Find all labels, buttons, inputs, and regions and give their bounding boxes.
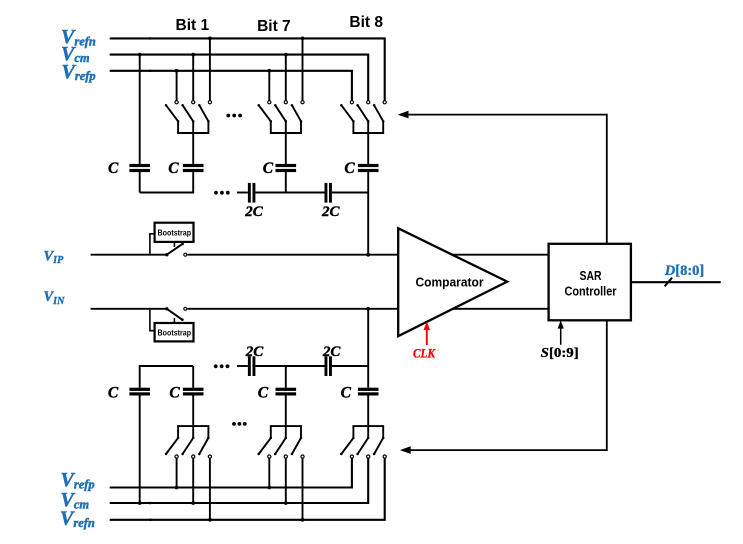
- junction bit7 Vrefp: [267, 69, 271, 73]
- wire bus Vrefn top: [110, 38, 385, 100]
- switch S8b (top): [367, 101, 370, 104]
- svg-text:C: C: [258, 385, 269, 402]
- switch S8c (top): [383, 101, 386, 104]
- junction bit1 Vrefp: [175, 69, 179, 73]
- ellipsis dots between bit1/bit7 switches bottom: [232, 422, 236, 426]
- junction nub on Vcm bottom bus: [149, 502, 152, 505]
- wire bootstrap U3 control stub: [173, 318, 175, 323]
- junction bit1 Vrefp bottom: [175, 486, 179, 490]
- svg-text:C: C: [344, 160, 355, 177]
- capacitor C bit7 bottom: [285, 366, 287, 388]
- junction nub on Vrefn top bus: [149, 37, 152, 40]
- junction nub on Vrefp top bus: [149, 70, 152, 73]
- wire switch-bracket bit7 top: [271, 121, 301, 133]
- node VIN switch pivot: [165, 307, 168, 310]
- svg-text:Comparator: Comparator: [416, 274, 484, 289]
- ellipsis dots top rail: [214, 191, 218, 195]
- svg-text:Bootstrap: Bootstrap: [158, 228, 192, 238]
- switch S8bc (bottom): [383, 455, 386, 458]
- capacitor C bit8 top: [367, 121, 369, 164]
- switch bootstrap-VIN blade: [167, 309, 183, 320]
- wire bootstrap U2 left lead: [150, 234, 155, 254]
- wire VIP line left: [91, 254, 167, 256]
- svg-text:CLK: CLK: [413, 345, 436, 360]
- switch S7a (top): [268, 101, 271, 104]
- bootstrap block U3 (bottom): [155, 323, 194, 341]
- wire feed bit1 bottom to Vrefp: [176, 458, 178, 487]
- wire bootstrap U3 left lead: [150, 310, 155, 331]
- wire VIP line right (to comparator/SAR, passes under comparator): [188, 254, 549, 256]
- wire feed bit1 bottom to Vrefn: [209, 458, 211, 520]
- junction bit7 Vcm bottom: [284, 501, 288, 505]
- switch S1c (top): [208, 101, 211, 104]
- wire S[0:9] arrow: [560, 325, 562, 345]
- junction dummy cap to Vcm bottom: [138, 501, 142, 505]
- wire feed bit1 bottom to Vcm: [192, 458, 194, 503]
- wire feed Vrefn to bit7 switch: [302, 38, 304, 100]
- svg-text:Bootstrap: Bootstrap: [158, 327, 192, 337]
- wire switch-bracket bit8b bottom: [353, 426, 383, 438]
- node VIP switch open terminal: [184, 253, 187, 256]
- wire SAR feedback to bottom switches: [409, 320, 607, 450]
- switch S1bc (bottom): [208, 455, 211, 458]
- capacitor C bit8 bottom: [358, 388, 379, 391]
- svg-text:C: C: [108, 160, 119, 177]
- svg-text:C: C: [263, 160, 274, 177]
- junction bit1 Vrefn bottom: [208, 518, 212, 522]
- junction bit7 Vcm: [284, 53, 288, 57]
- ellipsis dots bottom rail: [214, 364, 218, 368]
- node VIN switch open terminal: [184, 307, 187, 310]
- switch S1a (top): [175, 101, 178, 104]
- wire bottom rail to 2C: [237, 365, 248, 367]
- switch S8a (top): [350, 101, 353, 104]
- capacitor 2C right bottom: [325, 356, 328, 376]
- wire bootstrap U2 control stub: [173, 242, 175, 247]
- wire bottom rail cap1-cap2: [140, 366, 194, 388]
- svg-text:C: C: [169, 385, 180, 402]
- switch S1b (top): [192, 101, 195, 104]
- svg-text:SAR: SAR: [580, 268, 602, 283]
- junction bit7 Vrefn: [301, 37, 305, 41]
- wire bus Vrefp top: [110, 71, 352, 101]
- svg-text:2C: 2C: [244, 204, 264, 220]
- svg-text:2C: 2C: [321, 204, 341, 220]
- switch bootstrap-VIP blade: [167, 244, 183, 255]
- capacitor 2C left top: [248, 183, 251, 203]
- junction bit1 Vrefn: [208, 37, 212, 41]
- svg-text:Bit 1: Bit 1: [176, 17, 210, 34]
- wire bus Vrefn bottom: [110, 458, 385, 520]
- wire VIN line right (to comparator/SAR, passes under comparator): [188, 308, 549, 310]
- svg-text:2C: 2C: [322, 344, 342, 360]
- wire top rail to 2C: [237, 192, 248, 194]
- capacitor C bit1 top: [192, 121, 194, 164]
- svg-text:S[0:9]: S[0:9]: [541, 345, 579, 360]
- wire feed bit7 bottom to Vrefp: [268, 458, 270, 487]
- wire switch-bracket bit1b bottom: [178, 426, 208, 438]
- bus slash mark: [665, 278, 673, 287]
- wire bottom rail mid: [255, 365, 324, 367]
- wire CLK arrow (red): [426, 326, 428, 345]
- wire bit8 cap to VIP node: [367, 172, 369, 255]
- junction bit1 Vcm: [191, 53, 195, 57]
- junction bit8 to VIN: [366, 307, 370, 311]
- junction dummy cap to Vcm top: [138, 53, 142, 57]
- capacitor 2C left bottom: [248, 356, 251, 376]
- wire top rail right: [332, 192, 368, 194]
- wire bottom rail right: [332, 365, 368, 367]
- wire feed Vrefp to bit7 switch: [268, 71, 270, 101]
- ellipsis dots between bit1/bit7 switches top: [226, 114, 230, 118]
- wire feed Vrefn to bit1 switch: [209, 38, 211, 100]
- junction bit7 Vrefp bottom: [267, 486, 271, 490]
- svg-text:C: C: [168, 160, 179, 177]
- svg-text:C: C: [341, 385, 352, 402]
- svg-text:2C: 2C: [245, 344, 265, 360]
- capacitor 2C right top: [325, 183, 328, 203]
- capacitor C (dummy, bottom-left): [129, 388, 150, 391]
- switch S7bc (bottom): [301, 455, 304, 458]
- wire feed Vrefp to bit1 switch: [176, 71, 178, 101]
- switch S7c (top): [301, 101, 304, 104]
- svg-text:Bit 7: Bit 7: [257, 18, 291, 35]
- switch S7ba (bottom): [268, 455, 271, 458]
- wire D output: [631, 281, 721, 283]
- switch S8ba (bottom): [350, 455, 353, 458]
- wire feed bit7 bottom to Vcm: [285, 458, 287, 503]
- wire switch-bracket bit7b bottom: [271, 426, 301, 438]
- switch S8bb (bottom): [367, 455, 370, 458]
- switch S1ba (bottom): [175, 455, 178, 458]
- junction bit7 Vrefn bottom: [301, 518, 305, 522]
- wire feed bit7 bottom to Vrefn: [302, 458, 304, 520]
- junction nub on Vrefn bottom bus: [149, 519, 152, 522]
- op-amp U1 comparator: [398, 228, 507, 336]
- junction bit8 rail to VIP: [366, 253, 370, 257]
- bootstrap block U2 (top): [155, 223, 194, 242]
- wire bus Vcm bottom: [110, 458, 369, 503]
- switch S7bb (bottom): [284, 455, 287, 458]
- svg-text:Bit 8: Bit 8: [349, 14, 383, 31]
- wire VIN line left: [91, 308, 167, 310]
- wire switch-bracket bit1 top: [178, 121, 208, 133]
- wire bus Vcm top: [110, 55, 369, 101]
- wire bus Vrefp bottom: [110, 458, 352, 487]
- switch S1bb (bottom): [192, 455, 195, 458]
- wire feed Vcm to bit1 switch: [192, 55, 194, 101]
- svg-text:D[8:0]: D[8:0]: [664, 263, 704, 279]
- wire top rail cap1-cap2: [140, 192, 194, 194]
- capacitor C bit7 top: [285, 121, 287, 164]
- svg-text:Controller: Controller: [565, 283, 617, 298]
- junction bit1 Vcm bottom: [191, 501, 195, 505]
- wire switch-bracket bit8 top: [353, 121, 383, 133]
- node VIP switch pivot: [165, 253, 168, 256]
- capacitor C bit1 bottom: [192, 366, 194, 388]
- switch S7b (top): [284, 101, 287, 104]
- wire top rail mid: [255, 192, 324, 194]
- SAR controller block: [549, 244, 631, 320]
- capacitor C (dummy, top-left): [139, 55, 141, 164]
- svg-text:C: C: [108, 385, 119, 402]
- wire feed Vcm to bit7 switch: [285, 55, 287, 101]
- wire bit8 VIN to bottom rail/cap: [367, 309, 369, 388]
- wire SAR feedback to top switches: [407, 115, 607, 244]
